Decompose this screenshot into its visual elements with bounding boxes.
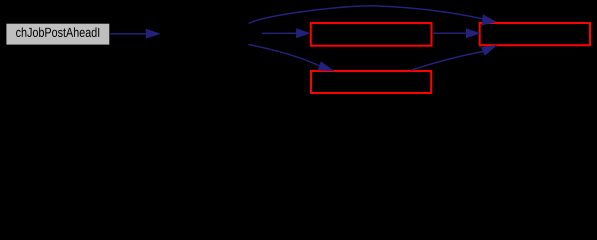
node hidden middle (black box, invisible on black) [161,23,263,46]
node bottom (red truncated box) [311,71,431,93]
node chJobPostAheadI (grey filled box) [5,23,110,46]
wire edge E2: hidden node -> upper-middle box [262,28,311,38]
wire edge E6: hidden node -> right box (arc over the top) [249,6,497,26]
node right (red truncated box) [480,23,590,45]
wire edge E4: upper-middle box -> right box [433,28,481,38]
wire edge E3: hidden node -> bottom box (curved) [248,45,334,72]
node upper-middle (red truncated box) [311,23,432,46]
wire edge E1: chJobPostAheadI -> hidden node [111,29,161,39]
wire edge E5: bottom box -> right box [411,45,497,71]
